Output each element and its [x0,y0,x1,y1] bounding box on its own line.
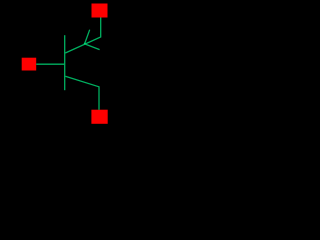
emitter arrow (PNP) [85,30,100,50]
wire collector diagonal [65,76,99,110]
pin square left (base pin) [22,58,37,71]
pin square top (emitter pin) [92,4,108,18]
transistor Q1 base bar [64,35,66,90]
wire emitter diagonal [65,18,100,54]
arrow tip junction highlight [84,43,86,45]
wire base [36,63,64,65]
background [0,0,128,128]
pin square bottom (collector pin) [91,110,107,124]
